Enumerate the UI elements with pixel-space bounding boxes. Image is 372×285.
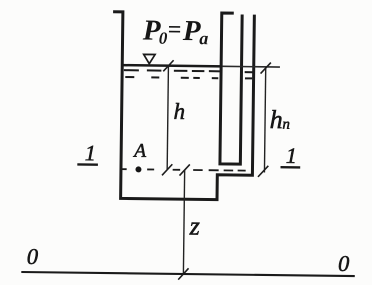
- svg-text:1: 1: [286, 143, 297, 168]
- svg-text:=: =: [167, 17, 181, 43]
- svg-text:0: 0: [338, 251, 350, 276]
- svg-text:1: 1: [85, 140, 96, 165]
- svg-text:h: h: [270, 105, 283, 134]
- svg-text:a: a: [199, 28, 208, 48]
- svg-text:п: п: [282, 117, 290, 133]
- svg-text:z: z: [189, 211, 200, 240]
- svg-text:h: h: [173, 99, 185, 124]
- svg-text:0: 0: [27, 244, 39, 269]
- svg-text:A: A: [132, 141, 146, 162]
- svg-text:P: P: [182, 15, 201, 47]
